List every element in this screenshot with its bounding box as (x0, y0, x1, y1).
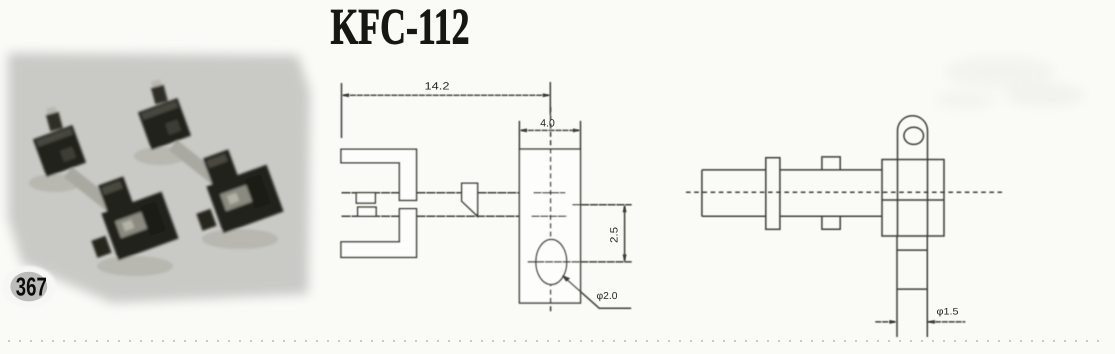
terminal plate rectangle (519, 149, 580, 303)
body left edge (701, 170, 703, 216)
arrow 4.0 left (519, 128, 527, 132)
clip leaf (middle) (98, 176, 134, 215)
fork upper jaw (341, 149, 417, 200)
crossing tab (766, 158, 780, 230)
page number badge 367 (2, 266, 56, 308)
arrow 14.2 left (342, 93, 350, 97)
svg-text:φ1.5: φ1.5 (937, 307, 959, 318)
body outline bottom (702, 215, 882, 217)
arrowheads right drawing (890, 320, 935, 324)
strip top line (342, 192, 520, 194)
terminal block (882, 160, 944, 237)
arrow 2.5 top (623, 205, 627, 213)
plate centerline (550, 107, 552, 314)
arrow 4.0 right (573, 128, 581, 132)
body outline top (702, 169, 882, 171)
block inner line (882, 199, 944, 201)
contact tab upper (356, 193, 375, 203)
svg-text:14.2: 14.2 (425, 81, 450, 93)
dim 14.2 extension line right (549, 82, 551, 115)
lower tube (897, 236, 927, 337)
2.5 extension line top (572, 204, 631, 206)
dim line 2.5 (624, 206, 626, 261)
clip body 2 (end) (101, 192, 178, 261)
shadow under bodies (29, 174, 81, 192)
svg-text:367: 367 (16, 272, 47, 302)
scan artifact dotted line bottom (8, 340, 1108, 342)
small tab bottom (822, 216, 840, 229)
svg-text:4.0: 4.0 (540, 117, 555, 129)
solder prong (44, 106, 63, 132)
bent lance (flag) (462, 183, 478, 216)
fuse clip photo: clip assembly B (134, 79, 284, 249)
arrow phi1.5 right (927, 320, 935, 324)
clip body 1 (33, 125, 86, 177)
dim phi1.5 lines (875, 321, 965, 323)
dim line 4.0 (521, 129, 579, 131)
hole leader line (564, 277, 632, 309)
mounting foot (91, 236, 111, 258)
eyelet hole (904, 127, 924, 144)
hole ellipse (536, 239, 567, 284)
arrowheads middle drawing (342, 93, 627, 282)
dim 4.0 extension lines (519, 121, 580, 149)
svg-text:φ2.0: φ2.0 (597, 291, 618, 302)
arrow phi1.5 left (890, 320, 898, 324)
small tab top (822, 157, 840, 170)
arrow 14.2 right (543, 93, 551, 97)
centerline (686, 191, 1002, 193)
2.5 extension line bottom (528, 261, 632, 263)
dim 14.2 extension line left (341, 83, 343, 138)
tube division lines (897, 250, 927, 289)
svg-text:2.5: 2.5 (609, 227, 621, 243)
scan mottling top right (935, 56, 1085, 110)
hidden strip dashes inside plate (532, 193, 568, 217)
contact tab lower (358, 207, 376, 216)
strip bottom line (342, 215, 520, 217)
metal strip (68, 172, 118, 212)
arrow hole leader (562, 275, 570, 282)
fuse clip photo: clip assembly A (29, 106, 179, 276)
arrow 2.5 bottom (623, 254, 627, 262)
fork lower jaw (341, 209, 417, 258)
photo background (8, 53, 310, 303)
eyelet tongue (898, 116, 928, 236)
svg-text:KFC-112: KFC-112 (331, 0, 470, 56)
dim line 14.2 (343, 94, 549, 96)
